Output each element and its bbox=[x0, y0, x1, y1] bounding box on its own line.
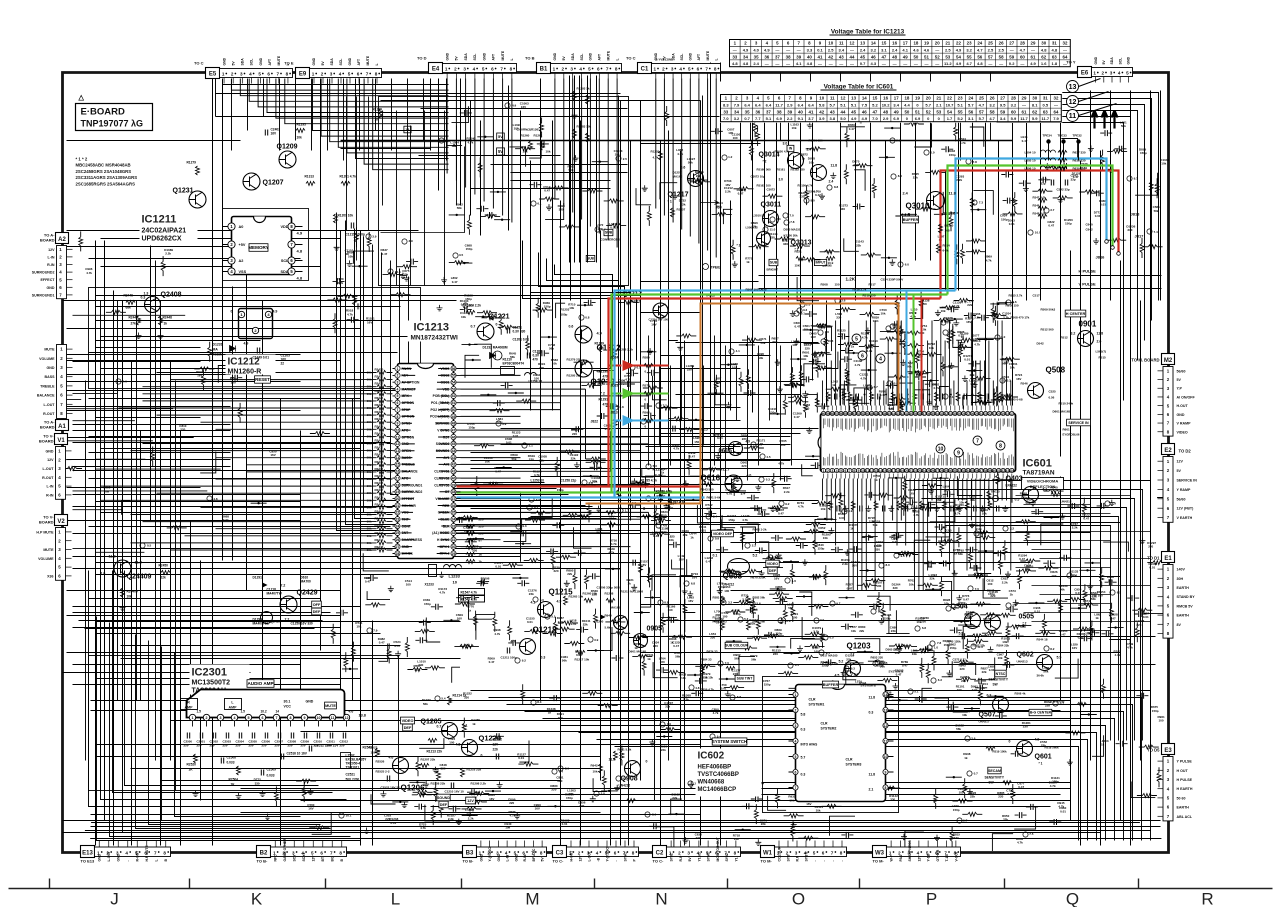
IC601 bottom pin 9 bbox=[856, 468, 860, 472]
svg-text:41: 41 bbox=[818, 54, 823, 59]
svg-text:TVSTC4066BP: TVSTC4066BP bbox=[698, 772, 739, 778]
svg-text:10: 10 bbox=[938, 446, 944, 452]
wire corner bbox=[382, 253, 581, 501]
svg-text:8: 8 bbox=[999, 443, 1002, 449]
svg-text:2: 2 bbox=[321, 72, 324, 77]
capacitor under IC2301 bbox=[330, 733, 332, 739]
svg-text:R518 560k: R518 560k bbox=[1045, 746, 1060, 750]
svg-text:CHURN(3)R1261: CHURN(3)R1261 bbox=[517, 128, 541, 132]
svg-text:2: 2 bbox=[662, 67, 665, 72]
IC601 bottom pin 7 bbox=[848, 468, 852, 472]
svg-text:P: P bbox=[926, 890, 937, 908]
svg-text:10k: 10k bbox=[823, 536, 828, 540]
svg-text:55: 55 bbox=[958, 109, 963, 114]
svg-text:2: 2 bbox=[1102, 71, 1105, 76]
svg-text:R512: R512 bbox=[1061, 336, 1069, 340]
capacitor under IC2301 bbox=[291, 733, 293, 739]
svg-text:0: 0 bbox=[1009, 740, 1011, 744]
svg-text:5.1: 5.1 bbox=[851, 103, 857, 108]
IC2301 pin 11 bbox=[329, 714, 335, 720]
svg-text:23: 23 bbox=[918, 469, 922, 473]
svg-text:MUTE: MUTE bbox=[706, 50, 710, 60]
IC601 top pin 36 bbox=[843, 411, 847, 415]
pin 10 IC1213 bbox=[395, 428, 400, 433]
IC601 bottom pin 13 bbox=[874, 468, 878, 472]
svg-text:TO M-: TO M- bbox=[761, 859, 773, 864]
svg-text:35: 35 bbox=[754, 54, 759, 59]
svg-text:220: 220 bbox=[710, 635, 715, 639]
svg-text:32: 32 bbox=[958, 469, 962, 473]
svg-text:10: 10 bbox=[453, 580, 458, 585]
svg-text:C545 0-68: C545 0-68 bbox=[1009, 398, 1023, 402]
IC601 bottom pin 22 bbox=[913, 468, 917, 472]
svg-text:15K: 15K bbox=[795, 264, 801, 268]
svg-text:R2525 2-2: R2525 2-2 bbox=[376, 770, 390, 774]
svg-text:* 1 * 2: * 1 * 2 bbox=[76, 157, 88, 162]
svg-text:R2424: R2424 bbox=[375, 396, 384, 400]
svg-text:100: 100 bbox=[792, 343, 797, 347]
svg-text:4: 4 bbox=[836, 469, 838, 473]
svg-text:60: 60 bbox=[1020, 54, 1025, 59]
svg-text:WN40668: WN40668 bbox=[698, 780, 725, 786]
svg-text:25V: 25V bbox=[184, 744, 189, 748]
svg-text:33: 33 bbox=[723, 109, 728, 114]
svg-text:M: M bbox=[525, 890, 539, 908]
svg-text:L1258 18: L1258 18 bbox=[529, 380, 543, 384]
svg-text:DEF: DEF bbox=[440, 803, 448, 807]
transistor Q3010 bbox=[927, 192, 945, 210]
svg-text:TO B-: TO B- bbox=[463, 859, 474, 864]
svg-text:4.1: 4.1 bbox=[531, 601, 536, 605]
svg-text:53: 53 bbox=[945, 54, 950, 59]
svg-text:8: 8 bbox=[885, 786, 887, 790]
svg-text:57: 57 bbox=[835, 412, 839, 416]
svg-text:35: 35 bbox=[745, 109, 750, 114]
svg-text:1.5: 1.5 bbox=[197, 710, 202, 714]
svg-text:5V: 5V bbox=[562, 56, 566, 61]
svg-text:SYSTEM B: SYSTEM B bbox=[889, 670, 904, 674]
svg-text:22k: 22k bbox=[967, 303, 972, 307]
svg-text:3.4: 3.4 bbox=[741, 492, 746, 496]
svg-text:12: 12 bbox=[850, 41, 855, 46]
svg-text:7.9: 7.9 bbox=[1053, 116, 1059, 121]
svg-text:R1287 4.7k: R1287 4.7k bbox=[669, 501, 686, 505]
svg-text:10: 10 bbox=[819, 96, 824, 101]
svg-text:-: - bbox=[126, 860, 130, 861]
svg-text:56k: 56k bbox=[675, 655, 680, 659]
svg-text:4.9: 4.9 bbox=[557, 600, 562, 604]
svg-text:28: 28 bbox=[396, 552, 400, 556]
merged wire mesh bbox=[62, 106, 1167, 847]
svg-text:0.7: 0.7 bbox=[860, 61, 866, 66]
svg-text:SUB: SUB bbox=[605, 231, 613, 235]
svg-text:56/60: 56/60 bbox=[1177, 497, 1186, 501]
svg-text:2.1: 2.1 bbox=[869, 788, 874, 792]
wire corner bbox=[346, 221, 629, 525]
svg-text:R2422: R2422 bbox=[375, 382, 384, 386]
svg-text:R512: R512 bbox=[825, 250, 833, 254]
resistor R2447 bbox=[137, 316, 141, 325]
svg-text:28: 28 bbox=[962, 412, 966, 416]
svg-text:7.8: 7.8 bbox=[973, 160, 978, 164]
connector pin strip (left, mute/volume...) bbox=[57, 345, 67, 419]
IC601 top pin 55 bbox=[927, 411, 931, 415]
svg-text:TPE33: TPE33 bbox=[1058, 134, 1068, 138]
TPE62 testpoint bbox=[703, 264, 709, 270]
svg-text:33: 33 bbox=[732, 54, 737, 59]
IC2301 pin 12 bbox=[343, 714, 349, 720]
svg-text:R2441: R2441 bbox=[375, 517, 384, 521]
svg-text:0.47: 0.47 bbox=[815, 193, 821, 197]
svg-text:27k: 27k bbox=[131, 322, 137, 326]
svg-text:—: — bbox=[775, 61, 779, 66]
IC601 top pin 49 bbox=[900, 411, 904, 415]
svg-text:C3072 10p: C3072 10p bbox=[751, 175, 766, 179]
svg-text:9.8: 9.8 bbox=[980, 531, 985, 535]
svg-text:16V: 16V bbox=[774, 577, 779, 581]
svg-text:220: 220 bbox=[990, 594, 995, 598]
svg-text:0.1: 0.1 bbox=[817, 48, 823, 53]
svg-text:BRIGHT: BRIGHT bbox=[767, 268, 779, 272]
capacitor under IC2301 bbox=[278, 733, 280, 739]
svg-text:42: 42 bbox=[452, 463, 456, 467]
svg-text:16: 16 bbox=[396, 470, 400, 474]
IC601 top pin 40 bbox=[861, 411, 865, 415]
svg-text:2.2k: 2.2k bbox=[725, 189, 731, 193]
svg-text:47: 47 bbox=[881, 54, 886, 59]
pin 8 IC1213 bbox=[395, 414, 400, 419]
svg-text:3.2: 3.2 bbox=[966, 48, 972, 53]
svg-text:55: 55 bbox=[967, 54, 972, 59]
svg-text:—: — bbox=[839, 61, 843, 66]
component cluster zone (645,335)-(818,470) bbox=[673, 426, 675, 432]
svg-text:21: 21 bbox=[936, 96, 941, 101]
svg-text:22k: 22k bbox=[598, 227, 603, 231]
IC601 top pin 35 bbox=[839, 411, 843, 415]
svg-text:22: 22 bbox=[988, 412, 992, 416]
IC601 bottom pin 4 bbox=[835, 468, 839, 472]
svg-text:13: 13 bbox=[874, 469, 878, 473]
IC601 top pin 37 bbox=[848, 411, 852, 415]
svg-text:38: 38 bbox=[918, 412, 922, 416]
svg-text:1k: 1k bbox=[1101, 742, 1105, 746]
svg-text:H.P MUTE: H.P MUTE bbox=[36, 530, 54, 534]
svg-text:VIDEO: VIDEO bbox=[767, 562, 778, 566]
svg-text:E13: E13 bbox=[82, 851, 93, 857]
svg-text:0.3: 0.3 bbox=[869, 711, 874, 715]
component row above IC601 pins bbox=[827, 392, 831, 401]
svg-text:E5: E5 bbox=[209, 72, 217, 78]
svg-text:L3010 56: L3010 56 bbox=[753, 214, 766, 218]
svg-text:Q1218: Q1218 bbox=[533, 626, 558, 635]
pin 22 IC1213 bbox=[395, 510, 400, 515]
IC2301 pin 4 bbox=[231, 714, 237, 720]
component cluster zone (240,780)-(700,838) bbox=[456, 819, 462, 825]
svg-text:1.8: 1.8 bbox=[951, 212, 956, 216]
svg-text:15: 15 bbox=[881, 41, 886, 46]
svg-text:18: 18 bbox=[1006, 412, 1010, 416]
svg-text:32: 32 bbox=[1054, 96, 1059, 101]
svg-text:M2: M2 bbox=[1164, 358, 1173, 364]
transistor Q905a bbox=[614, 616, 628, 630]
svg-text:R1547 4.7k: R1547 4.7k bbox=[461, 591, 478, 595]
svg-text:34: 34 bbox=[936, 412, 940, 416]
svg-text:100: 100 bbox=[371, 751, 376, 755]
svg-text:11.7: 11.7 bbox=[775, 103, 783, 108]
svg-text:GND: GND bbox=[117, 853, 121, 861]
svg-text:0.5: 0.5 bbox=[830, 635, 835, 639]
svg-text:C1206 330p 500V: C1206 330p 500V bbox=[597, 586, 621, 590]
svg-text:3: 3 bbox=[1110, 71, 1113, 76]
svg-text:0.3V 330: 0.3V 330 bbox=[513, 330, 526, 334]
svg-text:7.5: 7.5 bbox=[862, 103, 868, 108]
svg-text:25V: 25V bbox=[236, 744, 241, 748]
svg-text:0.01: 0.01 bbox=[964, 358, 970, 362]
svg-text:1k: 1k bbox=[375, 118, 379, 122]
boxed resistor label bbox=[459, 589, 485, 596]
svg-text:19: 19 bbox=[924, 41, 929, 46]
svg-text:7: 7 bbox=[849, 469, 851, 473]
svg-text:9.3: 9.3 bbox=[851, 666, 856, 670]
svg-text:4.7: 4.7 bbox=[966, 61, 972, 66]
svg-text:8: 8 bbox=[734, 851, 737, 856]
svg-text:16: 16 bbox=[892, 41, 897, 46]
svg-text:4.7k: 4.7k bbox=[986, 258, 992, 262]
IC601 top pin 51 bbox=[909, 411, 913, 415]
svg-text:C524 330P 500V: C524 330P 500V bbox=[881, 278, 904, 282]
svg-text:GND: GND bbox=[445, 52, 449, 60]
svg-text:19: 19 bbox=[396, 490, 400, 494]
svg-text:16V: 16V bbox=[806, 802, 811, 806]
svg-text:3.2: 3.2 bbox=[871, 48, 877, 53]
capacitor C2509 bbox=[261, 770, 263, 776]
svg-text:1: 1 bbox=[312, 72, 315, 77]
svg-text:22k: 22k bbox=[665, 705, 670, 709]
IC601 top pin 38 bbox=[852, 411, 856, 415]
svg-text:SUB COLOUR: SUB COLOUR bbox=[725, 644, 748, 648]
label L AMP bbox=[225, 699, 242, 710]
svg-text:NFC: NFC bbox=[274, 854, 278, 862]
svg-text:22k: 22k bbox=[856, 243, 861, 247]
svg-text:11: 11 bbox=[839, 41, 844, 46]
svg-text:24: 24 bbox=[979, 412, 983, 416]
svg-text:TO D2: TO D2 bbox=[1179, 449, 1192, 454]
svg-text:—: — bbox=[882, 61, 886, 66]
wire corner bbox=[136, 635, 331, 829]
svg-text:Voltage Table for IC1213: Voltage Table for IC1213 bbox=[831, 29, 905, 36]
IC601 top pin 53 bbox=[918, 411, 922, 415]
svg-text:—: — bbox=[1010, 48, 1014, 53]
svg-text:168: 168 bbox=[945, 229, 950, 233]
svg-text:R1245: R1245 bbox=[653, 467, 666, 472]
svg-text:2.4: 2.4 bbox=[903, 192, 909, 196]
svg-text:8: 8 bbox=[339, 851, 342, 856]
svg-text:C1210 16V 10: C1210 16V 10 bbox=[445, 790, 465, 794]
svg-text:4.9: 4.9 bbox=[1030, 61, 1036, 66]
svg-text:4.7k: 4.7k bbox=[439, 591, 445, 595]
IC601 top pin 74 bbox=[1010, 411, 1014, 415]
IC601 bottom pin 19 bbox=[900, 468, 904, 472]
transistor Q908 bbox=[625, 761, 641, 777]
label SUB bbox=[604, 229, 613, 235]
svg-text:11.8: 11.8 bbox=[1097, 332, 1104, 336]
svg-text:4.8: 4.8 bbox=[695, 686, 700, 690]
component row below IC601 pins bbox=[829, 501, 833, 510]
svg-text:150p: 150p bbox=[544, 305, 551, 309]
svg-text:1.2: 1.2 bbox=[728, 155, 733, 159]
label OFF DEF bbox=[312, 601, 322, 608]
svg-text:* 2: * 2 bbox=[763, 160, 767, 164]
svg-text:SENSITIVITY: SENSITIVITY bbox=[989, 678, 1009, 682]
svg-text:7.8: 7.8 bbox=[790, 220, 795, 224]
IC601 bottom pin 33 bbox=[962, 468, 966, 472]
wire corner bbox=[997, 123, 1124, 401]
wire GREEN from IC1213 pin bbox=[457, 491, 703, 493]
svg-text:0.3: 0.3 bbox=[541, 656, 546, 660]
svg-text:0.5: 0.5 bbox=[1015, 498, 1020, 502]
svg-text:Y PULSE: Y PULSE bbox=[1177, 760, 1193, 764]
pin 5 IC1213 bbox=[395, 393, 400, 398]
svg-text:R940: R940 bbox=[605, 614, 613, 618]
svg-text:44: 44 bbox=[452, 449, 456, 453]
svg-text:0.01: 0.01 bbox=[972, 688, 978, 692]
svg-text:40: 40 bbox=[798, 109, 803, 114]
svg-text:52: 52 bbox=[935, 54, 940, 59]
IC601 bottom pin 44 bbox=[1010, 468, 1014, 472]
svg-text:56k: 56k bbox=[1154, 209, 1159, 213]
IC601 bottom pin 32 bbox=[957, 468, 961, 472]
IC601 bottom pin 37 bbox=[979, 468, 983, 472]
svg-text:TO C-: TO C- bbox=[653, 859, 664, 864]
svg-text:0.47: 0.47 bbox=[963, 598, 969, 602]
svg-text:10k: 10k bbox=[461, 315, 466, 319]
svg-text:16V: 16V bbox=[966, 320, 971, 324]
svg-text:2.4: 2.4 bbox=[753, 61, 759, 66]
svg-text:5: 5 bbox=[311, 851, 314, 856]
IC601 top pin 39 bbox=[856, 411, 860, 415]
svg-text:42: 42 bbox=[819, 109, 824, 114]
svg-text:GND: GND bbox=[497, 853, 501, 861]
svg-text:BALANCE: BALANCE bbox=[37, 394, 55, 398]
svg-text:28: 28 bbox=[940, 469, 944, 473]
svg-text:2.1: 2.1 bbox=[936, 103, 942, 108]
svg-text:56/60: 56/60 bbox=[1177, 369, 1186, 373]
container box Q2408 block bbox=[89, 288, 421, 389]
svg-text:VDD: VDD bbox=[280, 225, 288, 229]
svg-text:57: 57 bbox=[979, 109, 984, 114]
svg-text:4.1: 4.1 bbox=[736, 349, 741, 353]
svg-text:10: 10 bbox=[317, 716, 321, 720]
svg-text:0.3: 0.3 bbox=[141, 296, 146, 300]
svg-text:0.1: 0.1 bbox=[713, 554, 718, 558]
svg-text:—: — bbox=[903, 61, 907, 66]
svg-text:-: - bbox=[614, 860, 618, 861]
svg-text:R1261: R1261 bbox=[534, 134, 543, 138]
svg-text:37: 37 bbox=[979, 469, 983, 473]
svg-text:R540: R540 bbox=[1051, 486, 1059, 490]
svg-text:V1: V1 bbox=[57, 438, 65, 444]
svg-text:Q504: Q504 bbox=[951, 604, 968, 611]
svg-text:R519 150: R519 150 bbox=[863, 294, 876, 298]
svg-text:R1289: R1289 bbox=[595, 342, 605, 346]
capacitor under IC2301 bbox=[239, 733, 241, 739]
resistor R540 bbox=[1051, 493, 1060, 497]
IC602 left pin bbox=[793, 769, 798, 774]
svg-text:5: 5 bbox=[248, 716, 250, 720]
svg-text:OFF: OFF bbox=[313, 603, 321, 607]
svg-text:R1295 22k: R1295 22k bbox=[567, 374, 582, 378]
svg-text:4.7k: 4.7k bbox=[862, 335, 868, 339]
wire corner bbox=[981, 111, 1138, 361]
svg-text:C1215 1000p: C1215 1000p bbox=[346, 233, 365, 237]
svg-text:8.6: 8.6 bbox=[898, 174, 903, 178]
svg-text:62: 62 bbox=[1041, 54, 1046, 59]
capacitor under IC2301 bbox=[200, 733, 202, 739]
svg-text:R2430: R2430 bbox=[375, 439, 384, 443]
svg-text:IC1211: IC1211 bbox=[142, 214, 177, 226]
svg-text:SUB TINT: SUB TINT bbox=[737, 677, 754, 681]
svg-text:3: 3 bbox=[397, 381, 399, 385]
svg-text:10k: 10k bbox=[998, 656, 1003, 660]
svg-text:220: 220 bbox=[509, 801, 514, 805]
svg-text:7.9: 7.9 bbox=[1112, 502, 1117, 506]
svg-text:MA407TSL: MA407TSL bbox=[253, 622, 269, 626]
capacitor under IC2301 bbox=[226, 733, 228, 739]
svg-text:GND: GND bbox=[689, 52, 693, 60]
svg-text:—: — bbox=[1063, 48, 1067, 53]
svg-text:45: 45 bbox=[860, 54, 865, 59]
wire RED from IC1213 pin bbox=[457, 485, 701, 487]
svg-text:AFT: AFT bbox=[268, 58, 272, 66]
capacitor under IC2301 bbox=[252, 733, 254, 739]
svg-text:39: 39 bbox=[787, 109, 792, 114]
svg-text:SUB: SUB bbox=[770, 261, 778, 265]
svg-text:100: 100 bbox=[987, 582, 992, 586]
transistor Q3013b bbox=[757, 232, 771, 246]
svg-text:5V: 5V bbox=[231, 61, 235, 66]
svg-text:22k: 22k bbox=[930, 577, 935, 581]
svg-text:R672 20k3: R672 20k3 bbox=[713, 620, 728, 624]
svg-text:470: 470 bbox=[603, 403, 609, 407]
transistor Q1205 bbox=[442, 723, 458, 739]
svg-text:—: — bbox=[893, 61, 897, 66]
connector C3 (bottom edge) bbox=[553, 846, 567, 858]
diode D1258 bbox=[601, 615, 606, 620]
svg-text:SYB: SYB bbox=[786, 854, 790, 862]
svg-text:Voltage Table for IC601: Voltage Table for IC601 bbox=[824, 84, 894, 91]
svg-text:GND: GND bbox=[348, 57, 352, 65]
svg-text:36-6k: 36-6k bbox=[1037, 674, 1045, 678]
svg-text:R512 560: R512 560 bbox=[1041, 328, 1054, 332]
svg-text:30: 30 bbox=[1032, 96, 1037, 101]
svg-text:SECAM: SECAM bbox=[988, 769, 1001, 773]
IC601 top pin 46 bbox=[887, 411, 891, 415]
svg-text:A1: A1 bbox=[58, 424, 66, 430]
svg-text:13: 13 bbox=[396, 449, 400, 453]
boxed resistor label bbox=[459, 596, 485, 603]
svg-text:SURROUND1: SURROUND1 bbox=[32, 293, 55, 297]
svg-text:4.9: 4.9 bbox=[956, 48, 962, 53]
svg-text:5.1: 5.1 bbox=[840, 103, 846, 108]
svg-text:L-IN: L-IN bbox=[48, 255, 55, 259]
svg-text:41: 41 bbox=[905, 412, 909, 416]
transistor Q1218 bbox=[520, 639, 536, 655]
svg-text:8T: 8T bbox=[479, 539, 483, 543]
svg-text:R641 5-6k: R641 5-6k bbox=[707, 496, 721, 500]
svg-text:33: 33 bbox=[940, 412, 944, 416]
transistor Q403 bbox=[1023, 487, 1039, 503]
svg-text:L604 10: L604 10 bbox=[1025, 151, 1036, 155]
